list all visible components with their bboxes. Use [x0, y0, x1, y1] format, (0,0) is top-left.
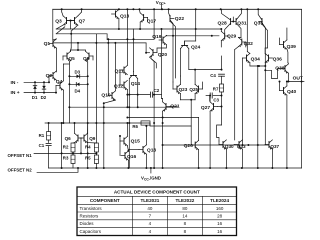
svg-text:Q5: Q5 — [69, 56, 76, 61]
svg-text:Q9: Q9 — [89, 136, 96, 141]
svg-text:TLE2021: TLE2021 — [140, 198, 159, 203]
svg-text:Transistors: Transistors — [80, 206, 103, 211]
svg-text:Q22: Q22 — [175, 16, 185, 22]
svg-text:Q31: Q31 — [237, 20, 247, 26]
svg-text:C1: C1 — [39, 143, 45, 148]
svg-text:COMPONENT: COMPONENT — [90, 198, 120, 203]
svg-text:TLE2022: TLE2022 — [175, 198, 194, 203]
svg-text:D4: D4 — [75, 88, 81, 93]
svg-text:Q32: Q32 — [244, 41, 254, 47]
svg-text:R1: R1 — [39, 133, 45, 138]
svg-text:Q15: Q15 — [131, 139, 141, 145]
svg-text:Q14: Q14 — [131, 81, 141, 87]
svg-text:Q13: Q13 — [120, 13, 130, 19]
svg-text:C2: C2 — [154, 88, 160, 93]
svg-text:OFFSET N2: OFFSET N2 — [8, 167, 33, 172]
svg-text:Q36: Q36 — [273, 57, 283, 63]
svg-text:16: 16 — [217, 221, 223, 226]
svg-text:Q4: Q4 — [56, 79, 63, 85]
svg-text:Q28: Q28 — [218, 20, 228, 26]
svg-text:D2: D2 — [41, 95, 47, 100]
svg-text:Q26: Q26 — [184, 143, 194, 149]
svg-text:R6: R6 — [132, 124, 138, 129]
svg-text:Q27: Q27 — [201, 105, 211, 111]
svg-text:C3: C3 — [213, 97, 219, 102]
svg-text:40: 40 — [147, 206, 153, 211]
svg-text:Q24: Q24 — [191, 44, 201, 50]
svg-text:Q35: Q35 — [254, 20, 264, 26]
svg-text:Q37: Q37 — [270, 144, 279, 149]
svg-text:Q17: Q17 — [147, 19, 157, 25]
svg-text:OUT: OUT — [293, 75, 303, 81]
svg-text:16: 16 — [217, 229, 223, 234]
svg-text:Capacitors: Capacitors — [80, 229, 102, 234]
svg-text:Resistors: Resistors — [80, 213, 100, 218]
svg-text:D1: D1 — [32, 95, 38, 100]
svg-text:Q1: Q1 — [44, 41, 51, 47]
svg-text:R2: R2 — [63, 144, 69, 149]
svg-text:C4: C4 — [210, 73, 216, 78]
svg-text:Q30: Q30 — [225, 144, 234, 149]
svg-text:80: 80 — [182, 206, 188, 211]
svg-text:IN +: IN + — [11, 90, 20, 96]
svg-text:Q16: Q16 — [127, 154, 137, 160]
svg-text:Q39: Q39 — [287, 44, 297, 50]
svg-text:R3: R3 — [63, 156, 69, 161]
svg-text:14: 14 — [182, 213, 188, 218]
svg-text:Q29: Q29 — [227, 34, 237, 40]
svg-text:Q34: Q34 — [251, 57, 261, 63]
svg-text:Q6: Q6 — [65, 136, 72, 141]
svg-text:VCC+: VCC+ — [156, 0, 166, 6]
svg-text:Q33: Q33 — [237, 144, 246, 149]
svg-text:Q25: Q25 — [189, 87, 198, 92]
svg-text:Q7: Q7 — [79, 19, 86, 25]
svg-text:Q20: Q20 — [158, 52, 168, 58]
svg-text:Q40: Q40 — [287, 89, 297, 95]
svg-text:R4: R4 — [85, 144, 91, 149]
svg-text:IN -: IN - — [11, 80, 19, 86]
svg-text:Q11: Q11 — [115, 68, 124, 74]
svg-text:28: 28 — [217, 213, 223, 218]
svg-text:Q3: Q3 — [55, 19, 62, 25]
svg-text:Q8: Q8 — [83, 56, 90, 61]
svg-text:R5: R5 — [85, 156, 91, 161]
svg-text:OFFSET N1: OFFSET N1 — [8, 153, 33, 158]
svg-text:Q19: Q19 — [152, 34, 162, 40]
svg-text:R7: R7 — [213, 86, 219, 91]
svg-text:D3: D3 — [75, 70, 81, 75]
svg-text:ACTUAL DEVICE COMPONENT COUNT: ACTUAL DEVICE COMPONENT COUNT — [114, 190, 200, 195]
svg-text:Q10: Q10 — [101, 92, 111, 98]
svg-text:160: 160 — [216, 206, 224, 211]
svg-text:Q23: Q23 — [179, 87, 188, 92]
svg-text:Q18: Q18 — [147, 148, 157, 154]
svg-text:TLE2024: TLE2024 — [210, 198, 229, 203]
svg-text:Diodes: Diodes — [80, 221, 95, 226]
